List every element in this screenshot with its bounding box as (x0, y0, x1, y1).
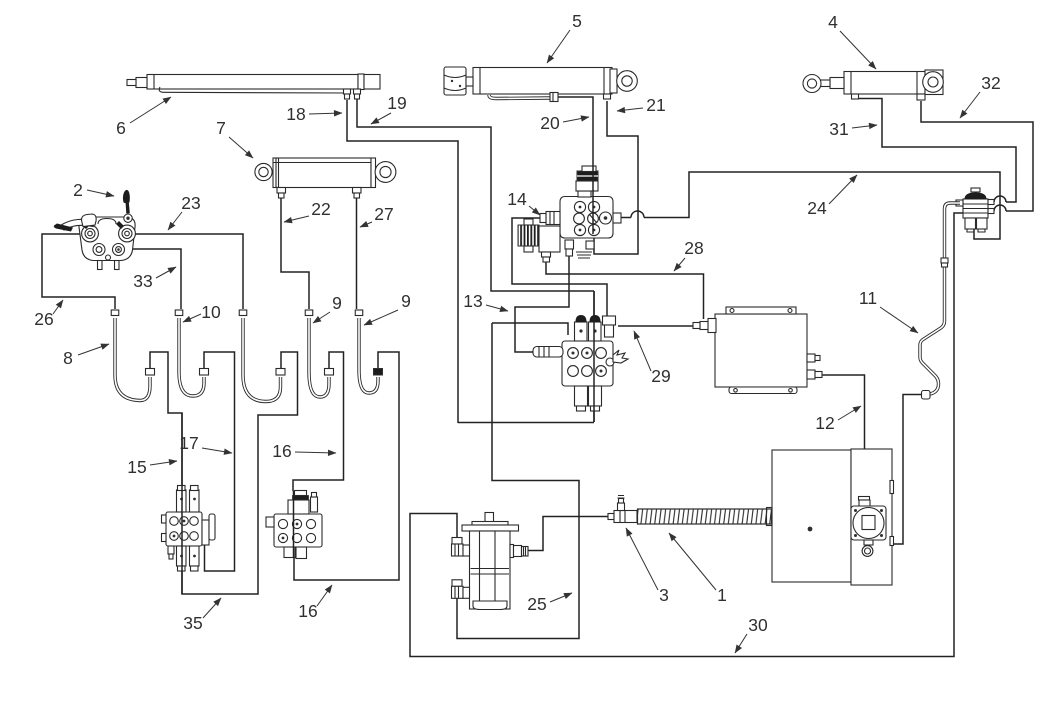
wire 33 (125, 249, 181, 309)
valve 16 (266, 491, 322, 559)
valve 13 (533, 315, 628, 411)
svg-text:27: 27 (374, 204, 393, 224)
svg-text:2: 2 (73, 180, 83, 200)
valve 16 top stack (288, 500, 309, 514)
svg-text:20: 20 (540, 113, 560, 133)
wire 21 (594, 101, 638, 254)
wire valve14 to filter (24 left part) (618, 172, 1000, 239)
svg-text:11: 11 (859, 288, 877, 308)
tank reservoir (693, 307, 822, 394)
svg-text:25: 25 (527, 594, 546, 614)
svg-text:16: 16 (298, 601, 317, 621)
wire 12 (822, 375, 865, 497)
wire 22 (281, 198, 309, 309)
cylinder 6 (127, 74, 380, 99)
tank left fitting (708, 319, 716, 333)
valve 14 solenoid (518, 225, 539, 246)
cylinder 7 (255, 158, 396, 198)
valve 14 left port fitting (546, 212, 560, 225)
valve 14 bottom ports (565, 240, 574, 249)
svg-text:22: 22 (311, 199, 330, 219)
crossover bump (994, 205, 1006, 211)
hose 9b (355, 310, 382, 393)
wire hose9a loop 16 (293, 352, 344, 491)
wire 20 (558, 97, 593, 160)
svg-text:13: 13 (463, 291, 482, 311)
svg-text:9: 9 (401, 291, 411, 311)
crossover bump (994, 196, 1006, 202)
power unit box 12 (767, 449, 894, 585)
pump right port (510, 545, 514, 558)
valve 13 right fitting (603, 316, 616, 325)
pump 25 (452, 513, 529, 610)
svg-text:19: 19 (387, 93, 406, 113)
hose 9c middle (239, 310, 285, 402)
valve 15 (162, 486, 216, 572)
motor on power unit (859, 497, 870, 501)
pump left fittings (452, 538, 462, 545)
wire 27 (356, 198, 358, 309)
wire hose10 loop 17 (204, 352, 235, 571)
svg-text:23: 23 (181, 193, 200, 213)
svg-text:28: 28 (684, 238, 703, 258)
svg-text:31: 31 (829, 119, 848, 139)
wire 18 (347, 100, 458, 423)
svg-text:9: 9 (332, 293, 342, 313)
svg-text:18: 18 (286, 104, 305, 124)
svg-text:26: 26 (34, 309, 53, 329)
svg-text:24: 24 (807, 198, 827, 218)
svg-text:3: 3 (659, 585, 669, 605)
svg-text:17: 17 (179, 433, 198, 453)
svg-text:14: 14 (507, 189, 527, 209)
wire manifold link (458, 422, 594, 424)
svg-text:1: 1 (717, 585, 727, 605)
svg-text:33: 33 (133, 271, 152, 291)
svg-text:32: 32 (981, 73, 1000, 93)
hose 10 (175, 310, 208, 396)
wire valve14 left port loop (512, 218, 607, 316)
wire 13 link valve14 to valve13 handle (515, 250, 569, 352)
svg-text:6: 6 (116, 118, 126, 138)
wire through valve 16 overdraw (293, 491, 295, 558)
svg-text:21: 21 (646, 95, 665, 115)
wire through valve 15 overdraw (181, 413, 183, 594)
valve 16 bottom (284, 547, 295, 558)
hose 11 curved tube (920, 203, 960, 399)
cylinder 5 (444, 67, 637, 102)
svg-text:30: 30 (748, 615, 768, 635)
wire through valve 13 overdraw (593, 291, 595, 422)
wire through valve 13 (593, 291, 595, 422)
tank right fittings (807, 354, 815, 362)
wire pump circuit box 25 (457, 323, 579, 639)
wire 19 (357, 98, 594, 291)
hose 8 (111, 310, 154, 401)
wire 28 (546, 261, 704, 319)
wire hose9b loop 16 (294, 352, 399, 580)
wire to valve13 top-left port (492, 323, 568, 335)
valve 13 top solenoids (575, 322, 588, 341)
svg-text:4: 4 (828, 12, 838, 32)
valve 15 bottom solenoids (177, 546, 187, 566)
svg-text:5: 5 (572, 11, 582, 31)
valve 15 relief stem (168, 546, 174, 554)
wire hose11 to motor (892, 395, 923, 545)
wire 23 (135, 234, 243, 309)
svg-text:12: 12 (815, 413, 834, 433)
svg-text:16: 16 (272, 441, 291, 461)
crossover bump (631, 211, 644, 217)
filter 11 assembly top right (956, 188, 994, 232)
hose fitting 3 (608, 496, 637, 523)
wire 31 (858, 99, 1016, 203)
knob 2 (124, 214, 132, 222)
coiled hose 1 (638, 509, 772, 524)
wire 26 (42, 234, 115, 309)
wire 32 (921, 101, 1033, 211)
control valve 2 (54, 190, 136, 270)
hose 9a (305, 310, 333, 397)
svg-text:8: 8 (63, 348, 73, 368)
wire 20 through stack overdraw (592, 160, 594, 234)
valve 14 (518, 166, 621, 262)
svg-text:15: 15 (127, 457, 146, 477)
svg-text:35: 35 (183, 613, 202, 633)
lever of valve 2 (62, 219, 93, 230)
wire 29 (618, 325, 693, 327)
wire hose8 loop 35 (150, 352, 298, 594)
svg-text:10: 10 (201, 302, 221, 322)
valve 15 top solenoids (177, 490, 187, 512)
cylinder 4 (803, 70, 943, 100)
svg-text:7: 7 (216, 118, 226, 138)
valve 14 top stack (578, 191, 591, 197)
wire 30 return to tank (410, 213, 966, 657)
valve 14 right port fitting (613, 213, 621, 223)
valve 13 bottom solenoids (575, 386, 588, 406)
valve 13 handle (533, 347, 563, 358)
svg-text:29: 29 (651, 366, 670, 386)
wire pump outlet to hose 1 (528, 517, 608, 551)
